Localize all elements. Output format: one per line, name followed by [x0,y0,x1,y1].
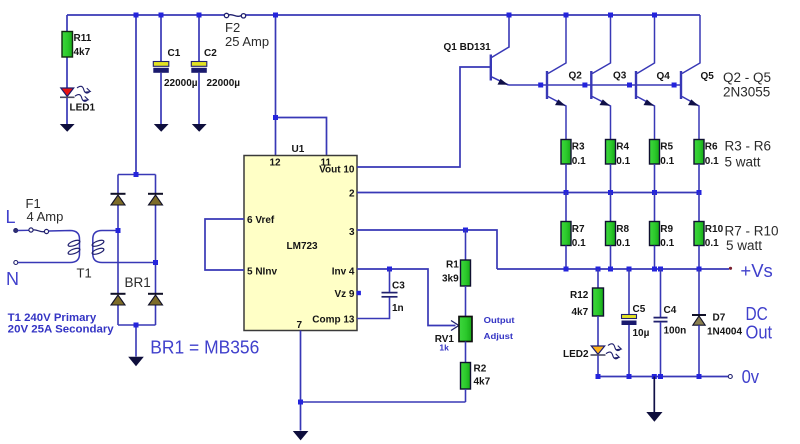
junction top rail at pin12 feed [273,13,278,18]
junction emitter rail R3 [564,190,569,195]
potentiometer RV1 [459,317,472,342]
ground main output [646,412,662,422]
wire pin12 feed [275,15,277,156]
svg-text:1N4004: 1N4004 [707,327,742,338]
wire C2 column [198,15,200,62]
junction 0v C5 [627,374,632,379]
svg-text:L: L [6,207,16,227]
junction secondary bottom to bridge [153,260,158,265]
transistor Q3 [591,15,610,140]
svg-text:R3: R3 [572,142,585,153]
wire pin7 down [300,331,302,431]
resistor R6 [694,140,704,165]
svg-text:4k7: 4k7 [572,307,589,318]
ground under C2 [192,124,207,132]
wire +Vs rail [497,268,729,270]
junction top rail at bridge feed column [134,13,139,18]
resistor R5 [650,140,660,165]
svg-text:2: 2 [349,189,355,200]
svg-text:C4: C4 [664,305,677,316]
svg-text:BR1: BR1 [125,275,151,290]
fuse F1 [29,228,49,234]
junction top rail Q4 [652,13,657,18]
capacitor C1 [153,62,169,73]
junction secondary top to bridge [116,228,121,233]
svg-text:0.1: 0.1 [705,238,719,249]
resistor R11 [62,32,73,58]
wire R7 top [565,193,567,222]
diode bridge top-left [111,194,126,205]
wire pin11 feed [276,118,327,156]
svg-text:0.1: 0.1 [660,238,674,249]
ground arrow under bridge [128,357,144,366]
wire bridge top rail [118,174,156,176]
transistor Q2 [547,15,566,140]
capacitor C4 [654,318,668,322]
svg-text:0.1: 0.1 [616,238,630,249]
wire 0v ground stem [653,377,655,413]
junction 0v LED2 [596,374,601,379]
wire R6 to rail [698,164,700,193]
junction emitter rail R6 [697,190,702,195]
svg-text:Inv 4: Inv 4 [332,267,355,278]
junction pin3 at R1 [463,228,468,233]
wire R11 to LED1 [66,57,68,88]
wire 0v rail [598,376,729,378]
wire Vout10 to Q1 base [357,67,490,167]
junction top rail Q3 [608,13,613,18]
wire L to fuse [18,229,29,231]
junction +Vs C5 [627,267,632,272]
wiper arrowhead at RV1 [451,321,459,331]
svg-text:Q2 - Q5: Q2 - Q5 [723,70,771,85]
junction base rail Q2 [538,83,543,88]
svg-text:R8: R8 [616,224,629,235]
transformer T1 secondary winding [93,231,156,263]
wire bridge feed column [135,15,137,175]
junction base rail Q4 [627,83,632,88]
svg-text:C2: C2 [204,48,217,59]
svg-text:R11: R11 [74,33,92,44]
transistor Q5 [681,15,700,140]
svg-text:Comp 13: Comp 13 [312,315,355,326]
op-amp regulator U1 LM723 box [244,156,357,331]
junction Inv4 at C3 [387,267,392,272]
node +Vs terminal [729,267,732,270]
wire bridge right column lower [155,305,157,325]
svg-text:Out: Out [746,323,773,343]
svg-text:Vz 9: Vz 9 [334,289,354,300]
LED D LED2 [591,343,622,360]
wire bridge bottom stem [135,325,137,357]
svg-text:R6: R6 [705,142,718,153]
svg-text:25 Amp: 25 Amp [225,34,269,49]
LED D LED1 [60,85,91,102]
wire R4 to rail [610,164,612,193]
resistor R10 [694,222,704,246]
wire C5 bottom [628,325,630,377]
junction pin7 ground node [298,400,303,405]
svg-text:5 NInv: 5 NInv [247,267,277,278]
wire R2 bottom [465,389,467,402]
svg-text:5 watt: 5 watt [726,238,762,253]
wire R1 to RV1 [465,286,467,317]
svg-text:T1 240V Primary: T1 240V Primary [8,312,97,324]
svg-text:U1: U1 [292,144,305,155]
transistor Q4 [636,15,655,140]
wire C1 to ground [160,73,162,124]
bridge rectifier BR1 frame wires [118,175,156,357]
junction 0v D7 [697,374,702,379]
wire pin3 to +Vs riser [357,230,497,269]
wire R10 bottom [698,246,700,270]
junction 0v C4 [658,374,663,379]
wire C3 bottom to Comp13 [357,297,390,318]
junction pin11 tap [273,115,278,120]
junction top rail at C2 [197,13,202,18]
svg-text:0.1: 0.1 [660,156,674,167]
resistor R1 [461,260,471,286]
wire pin2 emitter rail [357,192,699,194]
svg-text:R10: R10 [705,224,724,235]
wire fuse to T1 primary [18,231,80,263]
svg-text:R2: R2 [474,364,487,375]
diode bridge bottom-right [148,294,163,305]
svg-text:0.1: 0.1 [616,156,630,167]
wire C1 column [160,15,162,62]
wire R7 bottom [565,246,567,270]
diode bridge top-right [148,194,163,205]
svg-text:Output: Output [484,315,515,325]
ground under C1 [154,124,169,132]
arrowhead Q4 emitter [644,99,655,105]
svg-text:C5: C5 [633,304,646,315]
junction base rail Q3 [582,83,587,88]
svg-text:4k7: 4k7 [474,377,491,388]
junction emitter rail R5 [652,190,657,195]
svg-text:Vout 10: Vout 10 [319,165,355,176]
capacitor C5 [622,315,637,326]
svg-text:LED2: LED2 [563,349,589,360]
svg-text:R7: R7 [572,224,585,235]
wire R9 top [654,193,656,222]
wire bridge left column upper [117,175,119,195]
wire R3 to rail [565,164,567,193]
svg-text:0.1: 0.1 [572,238,586,249]
wire R5 to rail [654,164,656,193]
wire C4 top [660,269,662,317]
ground under LED1 [60,124,75,132]
svg-text:R7 - R10: R7 - R10 [725,224,779,239]
wire base rail Q2-Q5 [509,84,682,86]
resistor R2 [461,363,471,390]
svg-text:22000µ: 22000µ [164,78,198,89]
wire LED1 to ground [66,98,68,125]
svg-text:1n: 1n [392,303,404,314]
junction base rail Q5 [672,83,677,88]
svg-text:Adjust: Adjust [484,331,514,341]
diode D7 1N4004 [692,315,706,325]
capacitor C3 [382,293,398,297]
svg-text:BR1 = MB356: BR1 = MB356 [150,338,259,358]
capacitor C2 [191,62,207,73]
wire Inv4 to RV1 wiper [357,269,456,326]
svg-text:Q2: Q2 [569,71,583,82]
svg-text:5 watt: 5 watt [725,155,761,170]
wire R8 bottom [610,246,612,270]
wire C2 to ground [198,73,200,124]
junction bridge top [134,172,139,177]
svg-text:R4: R4 [616,142,629,153]
svg-text:Q4: Q4 [657,71,671,82]
wire R8 top [610,193,612,222]
svg-text:6 Vref: 6 Vref [247,215,275,226]
wire C5 top [628,269,630,315]
svg-text:22000µ: 22000µ [207,78,241,89]
svg-text:Q5: Q5 [701,71,715,82]
wire D7 top [698,269,700,315]
svg-text:2N3055: 2N3055 [723,85,770,100]
svg-text:20V 25A Secondary: 20V 25A Secondary [8,324,115,336]
transformer T1 primary winding [67,239,80,256]
wire R12 top [597,269,599,288]
svg-text:+Vs: +Vs [740,261,772,281]
resistor R3 [561,140,571,165]
wire R9 bottom [654,246,656,270]
wire R12 to LED2 [597,316,599,346]
svg-text:12: 12 [270,158,282,169]
svg-text:0.1: 0.1 [572,156,586,167]
svg-text:4 Amp: 4 Amp [27,209,64,224]
svg-text:C1: C1 [168,48,181,59]
wire C3 top [389,269,391,292]
wire top rail right segment [246,14,701,16]
svg-text:DC: DC [746,304,768,324]
svg-text:LED1: LED1 [70,103,96,114]
transistor Q1 BD131 [491,15,509,85]
junction top rail Q1 [507,13,512,18]
resistor R9 [650,222,660,246]
svg-text:7: 7 [297,320,303,331]
arrowhead Q5 emitter [688,99,699,105]
arrowhead Q1 emitter [498,79,509,85]
junction pin Vz 9 stub [357,291,361,295]
wire D7 bottom [698,325,700,376]
node N terminal [14,261,18,265]
svg-text:3: 3 [349,227,355,238]
node 0v terminal [728,375,732,379]
arrowhead Q3 emitter [600,99,611,105]
junction bridge bottom [134,323,139,328]
svg-text:0.1: 0.1 [705,156,719,167]
junction +Vs R7 [564,267,569,272]
wire R1 top [465,230,467,260]
svg-text:100n: 100n [664,326,687,337]
wire Vref to NInv loop [205,219,244,270]
svg-text:C3: C3 [392,281,405,292]
fuse F2 [224,13,245,18]
svg-text:D7: D7 [713,313,726,324]
resistor R7 [561,222,571,246]
junction +Vs C4 [658,267,663,272]
svg-text:1k: 1k [439,343,449,353]
wire pin7 to R2 bottom [301,401,466,403]
junction top rail at C1 [159,13,164,18]
diode bridge bottom-left [111,294,126,305]
ground under pin7 [293,431,309,440]
wire top rail left segment [67,14,225,16]
svg-text:R1: R1 [446,260,459,271]
wire bridge left column lower [117,305,119,325]
wire LED2 to 0v [597,356,599,377]
arrowhead Q2 emitter [555,99,566,105]
junction +Vs R12 [596,267,601,272]
svg-text:Q1 BD131: Q1 BD131 [444,42,492,53]
wire bridge right column upper [155,175,157,195]
svg-text:LM723: LM723 [287,241,319,252]
wire bridge bottom rail [118,324,156,326]
wire R10 top [698,193,700,222]
svg-text:10µ: 10µ [633,328,650,339]
junction emitter rail R4 [608,190,613,195]
wire RV1 to R2 [465,342,467,363]
junction 0v ground [652,374,657,379]
node L terminal [14,229,18,233]
svg-text:F2: F2 [225,20,240,35]
wire bridge left column middle [117,205,119,294]
svg-text:0v: 0v [742,367,760,387]
svg-text:R3 - R6: R3 - R6 [725,139,772,154]
junction +Vs R10 D7 [697,267,702,272]
resistor R4 [606,140,616,165]
svg-text:N: N [6,269,19,289]
svg-text:T1: T1 [77,266,92,281]
resistor R12 [593,288,604,316]
svg-text:Q3: Q3 [613,71,627,82]
wire bridge right column middle [155,205,157,294]
svg-text:3k9: 3k9 [442,274,459,285]
svg-text:R12: R12 [570,290,589,301]
svg-text:R5: R5 [660,142,673,153]
wire C4 bottom [660,322,662,377]
resistor R8 [606,222,616,246]
junction +Vs R8 [608,267,613,272]
svg-text:R9: R9 [660,224,673,235]
svg-text:4k7: 4k7 [74,47,91,58]
junction top rail Q2 [564,13,569,18]
junction +Vs R9 [652,267,657,272]
wire R11 column top [66,15,68,32]
